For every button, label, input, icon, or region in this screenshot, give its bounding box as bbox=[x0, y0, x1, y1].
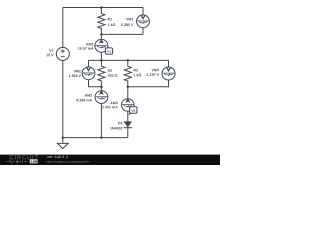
wire bottom rail bbox=[63, 137, 128, 139]
label VM3 1.150 V bbox=[152, 69, 154, 71]
ammeter AM2 bbox=[100, 87, 102, 91]
label AM2 8.268 mA bbox=[85, 94, 87, 96]
label VM2 1.364 V bbox=[74, 70, 76, 72]
voltmeter VM2 bbox=[88, 60, 90, 67]
label AM1 10.57 mA bbox=[86, 43, 88, 45]
voltmeter VM3 bbox=[168, 60, 170, 67]
voltmeter VM1 bbox=[142, 8, 144, 15]
ground bbox=[62, 138, 64, 144]
label R2 330 Ohm bbox=[108, 69, 110, 71]
wire left rail lower bbox=[62, 60, 64, 137]
label R3 1 kOhm bbox=[134, 69, 136, 71]
voltage source Vs bbox=[56, 47, 69, 60]
footer watermark bar bbox=[0, 155, 220, 165]
resistor R1 bbox=[98, 8, 105, 35]
wire node B rail bbox=[101, 33, 143, 35]
resistor R3 bbox=[124, 60, 131, 86]
ammeter AM1 bbox=[100, 34, 102, 39]
label AM3 2.301 mA bbox=[110, 102, 112, 104]
label R1 1 kOhm bbox=[108, 18, 110, 20]
footer site text bbox=[46, 156, 48, 158]
wire top rail bbox=[63, 7, 143, 9]
probe bubble V2 bbox=[128, 107, 137, 116]
diode D1 bbox=[124, 121, 132, 127]
wire left rail upper bbox=[62, 8, 64, 48]
wire node C rail bbox=[89, 59, 169, 61]
junction dots bbox=[62, 6, 130, 139]
label D1 1N4001 bbox=[118, 122, 120, 124]
probe bubble V1 bbox=[105, 47, 113, 54]
CircuitLab logo bbox=[10, 155, 14, 159]
resistor R2 bbox=[98, 60, 105, 86]
label VM1 5.285 V bbox=[126, 18, 128, 20]
label Vs 12 V bbox=[49, 49, 51, 51]
ammeter AM3 bbox=[127, 87, 129, 99]
